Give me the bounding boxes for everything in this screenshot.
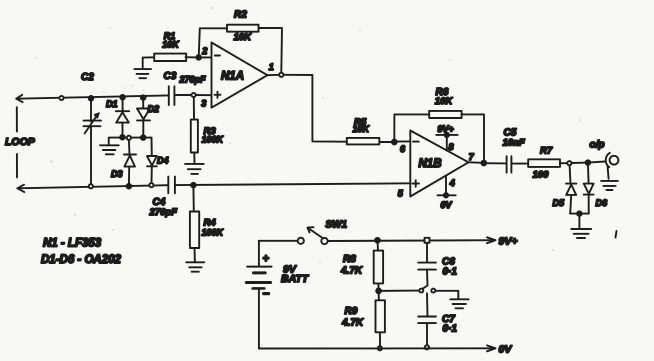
battery B1 bottom stem	[258, 288, 260, 348]
capacitor C2 arrow (variable)	[85, 114, 99, 134]
wire: to o/p jack	[588, 162, 605, 163]
wire: N1A apex to output node	[267, 74, 279, 76]
wire: battery top to switch	[259, 240, 298, 242]
svg-text:BATT: BATT	[281, 273, 310, 285]
op-amp N1B triangle	[410, 131, 468, 197]
power rail bar: pin 8	[436, 134, 457, 136]
node: C6 top (open square)	[425, 238, 430, 243]
svg-text:D3: D3	[111, 169, 123, 179]
node: D3 bottom junction	[127, 184, 132, 189]
diode D5 (bar up, triangle apex up)	[566, 183, 576, 185]
node: D1 bottom junction	[120, 135, 125, 140]
svg-text:N1A: N1A	[221, 71, 244, 83]
node: R8 top junction	[375, 238, 380, 243]
ground: R3	[185, 164, 204, 174]
wire: loop bottom horizontal	[17, 185, 168, 188]
svg-text:N1 - LF353: N1 - LF353	[43, 238, 102, 250]
wire: N1A output to R5	[284, 75, 346, 142]
capacitor C2 stem bottom	[90, 126, 92, 184]
wire: R1 right leg	[186, 56, 199, 58]
wire: R4 bottom leg	[194, 248, 196, 262]
wire: loop bottom arrowhead	[17, 185, 24, 192]
svg-text:D5: D5	[553, 198, 565, 208]
svg-text:0·1: 0·1	[443, 324, 458, 335]
svg-text:10K: 10K	[435, 96, 454, 107]
op-amp N1A plus sign	[215, 92, 221, 98]
node: link right terminal (open)	[431, 289, 435, 293]
resistor R4	[190, 212, 199, 249]
switch SW1 left contact	[298, 238, 304, 244]
node: D2 bottom junction	[141, 135, 146, 140]
svg-text:R2: R2	[234, 10, 247, 21]
wire: R8 bottom leg	[377, 283, 379, 291]
wire: D5-D6 bottom join	[570, 213, 589, 215]
wire: C5 to R7	[511, 163, 528, 165]
op-amp N1B plus sign	[413, 180, 420, 187]
ground: R4	[186, 262, 204, 271]
svg-text:LOOP: LOOP	[5, 136, 36, 148]
diode D4 stem bottom	[151, 166, 153, 183]
node: D6 junction	[586, 160, 591, 165]
wire: pin 8	[446, 135, 448, 151]
wire: to D6 node	[572, 162, 588, 164]
svg-text:−: −	[263, 287, 270, 301]
diode D4 stem top	[151, 138, 153, 156]
svg-text:100K: 100K	[202, 135, 225, 145]
svg-text:4: 4	[449, 178, 455, 188]
svg-text:10nF: 10nF	[503, 138, 525, 149]
node: N1A output terminal (open)	[279, 73, 283, 77]
svg-text:D1-D6 - OA202: D1-D6 - OA202	[41, 254, 121, 266]
node: R9 bottom terminal (open)	[378, 346, 382, 350]
node: C7 bottom terminal (open)	[425, 345, 429, 349]
wire: R4 top leg	[192, 185, 194, 211]
svg-text:R9: R9	[345, 306, 358, 317]
diode D3 (bar up, triangle apex up)	[124, 154, 136, 156]
wire: R6 right leg	[462, 114, 484, 162]
stray mark j	[616, 231, 617, 238]
node: D3 top terminal (open)	[127, 136, 131, 140]
resistor R1	[154, 54, 186, 61]
node: D4 bottom terminal (open)	[149, 183, 153, 187]
wire: C3 to pin3	[174, 94, 191, 96]
svg-text:o/p: o/p	[590, 140, 605, 151]
svg-text:R7: R7	[540, 146, 553, 157]
wire: R6 left leg	[394, 114, 429, 142]
power rail bar: pin 4	[438, 194, 456, 196]
node: D2 top junction	[141, 95, 146, 100]
resistor R5	[347, 138, 380, 145]
node: R8/R9 mid junction	[376, 289, 381, 294]
wire: pin 4	[445, 176, 447, 196]
svg-text:R8: R8	[343, 254, 356, 265]
svg-text:C2: C2	[81, 72, 94, 83]
svg-text:C3: C3	[164, 71, 177, 82]
wire: o/p jack to ground	[608, 167, 609, 179]
diode D4 (triangle apex down, bar below)	[147, 156, 157, 166]
wire: link to C7	[426, 293, 429, 316]
op-amp N1A minus sign	[215, 55, 220, 57]
svg-text:6: 6	[400, 144, 406, 154]
svg-text:D1: D1	[106, 99, 118, 109]
wire: R3 top leg	[193, 97, 195, 119]
diode D1 stem top	[122, 97, 124, 111]
ground: D5/D6	[571, 229, 591, 238]
wire: join to ground	[578, 214, 580, 229]
wire: C6 bottom leg	[423, 270, 427, 289]
diode D2 stem bottom	[142, 120, 144, 137]
node: D5 terminal (open)	[567, 161, 571, 165]
wire: pin6 into op-amp	[394, 140, 410, 142]
svg-text:N1B: N1B	[419, 158, 442, 170]
wire: R9 top leg	[378, 291, 380, 300]
node: output junction	[481, 161, 486, 166]
switch SW1 right contact	[321, 238, 327, 244]
svg-text:9V+: 9V+	[499, 236, 518, 248]
diode D2 stem top	[142, 98, 144, 109]
wire: bottom rail C4 to N1B pin5	[175, 183, 410, 185]
diode D3 stem bottom	[128, 167, 130, 186]
resistor R2	[227, 25, 259, 32]
node: loop top terminal (open)	[59, 96, 63, 100]
svg-text:270pF: 270pF	[149, 207, 178, 218]
wire: C6 top leg	[426, 243, 428, 263]
wire: loop dashed body	[16, 107, 18, 177]
switch SW1 lever with arrow	[308, 227, 323, 237]
battery B1 plates	[247, 266, 271, 268]
svg-text:0V: 0V	[441, 200, 453, 210]
capacitor C2 plates	[84, 121, 102, 127]
ground: R1 input ground	[134, 69, 151, 78]
diode D5 stem top	[569, 166, 572, 184]
svg-text:10K: 10K	[234, 32, 253, 43]
diode D1 stem bottom	[122, 123, 124, 137]
node: D5/D6 ground junction	[577, 211, 582, 216]
svg-text:270pF: 270pF	[179, 75, 207, 85]
wire: 9V+ arrowhead	[487, 237, 495, 243]
svg-text:7: 7	[469, 152, 475, 162]
resistor R6	[429, 111, 461, 118]
diode D6 (triangle apex down, bar below)	[584, 184, 594, 194]
wire: C7 bottom leg	[426, 323, 428, 345]
diode D2 (triangle apex down, bar below)	[137, 109, 150, 120]
capacitor C3 plates	[169, 86, 175, 105]
svg-text:D6: D6	[596, 198, 608, 208]
svg-text:4.7K: 4.7K	[341, 317, 364, 328]
svg-text:D4: D4	[157, 156, 169, 166]
wire: R9 bottom leg	[379, 332, 381, 346]
capacitor C2 (variable) stem top	[90, 98, 92, 121]
diode D6 stem bottom	[588, 195, 590, 214]
op-amp N1B minus sign	[413, 141, 419, 143]
node: C2 bottom terminal (open)	[89, 184, 93, 188]
node: pin3 terminal (open)	[192, 93, 196, 97]
diode D1 (cathode bar up, triangle apex up)	[116, 110, 129, 112]
wire: pin2 into op-amp	[199, 56, 212, 58]
svg-text:100: 100	[533, 170, 550, 181]
resistor R3	[191, 120, 198, 153]
ground: link	[450, 299, 468, 308]
svg-text:+: +	[263, 253, 270, 265]
diode D6 stem top	[587, 163, 590, 184]
svg-text:SW1: SW1	[325, 220, 347, 231]
wire: output to C5	[484, 162, 507, 164]
capacitor C4 plates	[168, 177, 175, 194]
node: link left terminal (open)	[419, 289, 423, 293]
svg-text:D2: D2	[148, 104, 160, 114]
wire: N1B output	[469, 161, 484, 164]
resistor R9	[376, 300, 385, 332]
capacitor C5 plates	[507, 156, 512, 172]
svg-text:10K: 10K	[353, 124, 371, 134]
wire: R1 left leg	[143, 57, 155, 69]
node: pin8 dot	[445, 133, 449, 137]
capacitor C6 plates	[418, 263, 436, 270]
diode D3 stem top	[128, 140, 131, 155]
node: pin4 dot	[444, 193, 448, 197]
wire: R2 left leg	[199, 28, 227, 57]
resistor R7	[528, 159, 560, 167]
node: pin2 junction	[196, 55, 201, 60]
ground: diode row	[108, 138, 110, 145]
connector: o/p jack circle	[610, 156, 619, 165]
svg-text:1: 1	[269, 62, 274, 72]
node: D1 top junction	[120, 95, 125, 100]
diode D5 stem bottom	[570, 195, 571, 214]
wire: 0V rail	[259, 347, 496, 349]
svg-text:8: 8	[449, 142, 454, 152]
wire: link to ground	[436, 291, 459, 299]
wire: 9V+ rail	[328, 239, 496, 242]
svg-text:100K: 100K	[202, 228, 225, 238]
connector: o/p jack arc	[606, 153, 610, 167]
wire: R7 right leg	[560, 162, 567, 164]
wire: R2 right leg	[259, 28, 283, 72]
wire: mid rail to link	[379, 290, 419, 292]
wire: loop top arrowhead	[16, 95, 22, 102]
svg-text:4.7K: 4.7K	[340, 266, 363, 277]
svg-text:0·1: 0·1	[443, 267, 458, 278]
wire: pin3 into op-amp	[196, 94, 212, 96]
wire: R3 bottom leg	[193, 153, 195, 164]
node: pin6 junction	[392, 140, 397, 145]
node: C2 top junction	[89, 96, 94, 101]
battery B1 top stem	[258, 241, 260, 266]
resistor R8	[374, 251, 383, 284]
wire: 0V arrowhead	[487, 345, 495, 351]
wire: diode middle row	[109, 137, 152, 139]
wire: R5 right leg	[380, 141, 395, 143]
ground: o/p jack	[601, 181, 618, 190]
wire: R8 top leg	[377, 240, 380, 250]
svg-text:2: 2	[201, 46, 207, 56]
svg-text:3: 3	[201, 99, 206, 109]
op-amp N1A triangle	[212, 43, 268, 108]
wire: loop top horizontal	[16, 95, 168, 98]
svg-text:0V: 0V	[499, 344, 513, 356]
svg-text:5: 5	[398, 188, 404, 198]
svg-text:10K: 10K	[162, 39, 180, 49]
capacitor C7 plates	[418, 317, 436, 324]
node: R4 top junction	[191, 183, 196, 188]
